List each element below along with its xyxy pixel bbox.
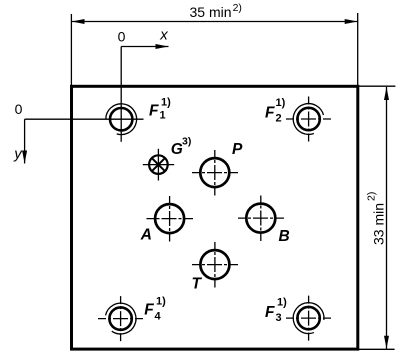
centerline F2 vertical: [308, 97, 310, 142]
svg-text:35 min: 35 min: [190, 4, 232, 20]
centerline F4 horizontal: [98, 318, 143, 320]
arrowhead of x axis: [156, 44, 169, 49]
fixing hole F4 circle: [109, 307, 131, 329]
extension line left edge for 35 min dimension: [70, 14, 72, 85]
centerline F4 vertical: [120, 296, 122, 341]
fixing hole F3 thread arc: [293, 303, 324, 334]
extension line right edge for 35 min dimension: [357, 13, 359, 85]
svg-text:3): 3): [182, 136, 191, 148]
centerline P horizontal: [192, 172, 238, 174]
svg-text:2: 2: [276, 113, 282, 125]
pin hole G diagonal spoke SW-NE: [152, 158, 165, 171]
arrowhead of y axis: [22, 151, 27, 164]
svg-text:33 min: 33 min: [370, 203, 386, 245]
centerline A vertical: [169, 196, 171, 242]
svg-text:B: B: [279, 228, 290, 245]
x axis arrow line: [121, 46, 168, 48]
centerline G horizontal: [143, 164, 174, 166]
centerline A horizontal: [147, 218, 194, 220]
dimension line 35 min: [72, 21, 358, 23]
svg-text:F: F: [149, 103, 159, 120]
svg-text:y: y: [13, 146, 23, 163]
locating pin hole G circle: [149, 155, 168, 174]
svg-text:4: 4: [155, 311, 162, 323]
y axis abscissa line through hole F1: [25, 118, 144, 120]
centerline F3 vertical: [308, 296, 310, 341]
centerline T horizontal: [192, 264, 238, 266]
pin hole G diagonal spoke NW-SE: [152, 158, 165, 171]
centerline G vertical: [157, 149, 159, 181]
arrowhead bottom of 33 min dimension: [384, 336, 389, 349]
svg-text:P: P: [232, 141, 243, 158]
port hole A circle: [155, 204, 184, 233]
fixing hole F1 thread arc: [106, 104, 137, 135]
centerline T vertical: [214, 242, 216, 288]
svg-text:0: 0: [15, 101, 23, 117]
fixing hole F1 circle: [110, 108, 132, 130]
svg-text:F: F: [265, 105, 275, 122]
fixing hole F4 thread arc: [106, 303, 136, 334]
svg-text:A: A: [140, 227, 152, 244]
svg-text:1): 1): [277, 297, 287, 309]
svg-text:1): 1): [156, 296, 166, 308]
extension line bottom for 33 min dimension: [359, 348, 395, 350]
fixing hole F3 circle: [297, 307, 319, 329]
svg-text:1): 1): [161, 97, 171, 109]
svg-text:x: x: [159, 27, 168, 44]
svg-text:1: 1: [160, 109, 166, 121]
x axis ordinate line down through hole F1: [120, 47, 122, 142]
svg-text:F: F: [144, 302, 154, 319]
port hole B circle: [246, 204, 275, 233]
dimension line 33 min: [386, 87, 388, 349]
y axis arrow line: [24, 119, 26, 163]
svg-text:F: F: [265, 304, 275, 321]
centerline F3 horizontal: [286, 317, 331, 319]
centerline B vertical: [260, 196, 262, 242]
svg-text:3: 3: [276, 312, 282, 324]
svg-text:1): 1): [276, 97, 286, 109]
svg-text:2): 2): [365, 192, 377, 201]
port hole T circle: [200, 250, 229, 279]
arrowhead left of 35 min dimension: [72, 19, 85, 24]
fixing hole F2 thread arc: [293, 104, 323, 135]
svg-text:2): 2): [233, 2, 242, 14]
centerline P vertical: [214, 150, 216, 196]
fixing hole F2 circle: [297, 108, 319, 130]
svg-text:T: T: [192, 276, 203, 293]
svg-text:0: 0: [118, 29, 126, 45]
centerline B horizontal: [238, 217, 284, 219]
arrowhead top of 33 min dimension: [384, 87, 389, 100]
centerline F2 horizontal: [286, 118, 331, 120]
plate body outline: [72, 86, 358, 349]
extension line top for 33 min dimension: [358, 85, 395, 87]
port hole P circle: [200, 158, 229, 187]
arrowhead right of 35 min dimension: [345, 19, 358, 24]
